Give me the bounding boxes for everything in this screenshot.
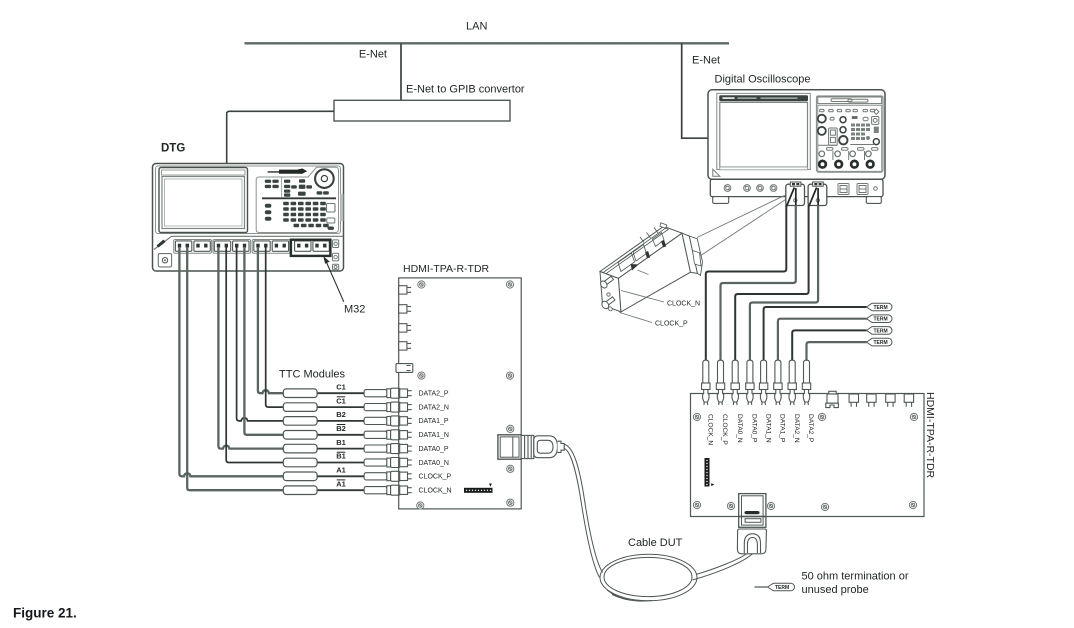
DTG chassis: [153, 164, 344, 272]
scope left foot: [713, 197, 729, 204]
wire DTG A1 to row7: [179, 247, 283, 476]
fixture right bracket: [682, 233, 698, 273]
svg-text:TTC Modules: TTC Modules: [279, 369, 346, 381]
svg-text:Figure 21.: Figure 21.: [13, 606, 77, 621]
TERM terminator 3: [867, 327, 892, 335]
panel row1 ovals: [820, 109, 875, 111]
svg-text:DATA2_N: DATA2_N: [419, 404, 449, 411]
wire DTG B2 to row3: [237, 247, 284, 421]
Cable DUT coiled loop: [600, 554, 697, 601]
scope bottom bay: [710, 179, 883, 196]
svg-text:TERM: TERM: [874, 328, 888, 334]
leader line scope probes to fixture: [697, 195, 785, 237]
panel diamond: [874, 109, 879, 114]
wires TTC modules to SMA sleeves: [316, 393, 365, 490]
TERM terminator 2: [867, 315, 892, 323]
scope control panel: [817, 96, 884, 172]
panel rocker: [829, 128, 838, 145]
left board pin1 arrow: [489, 484, 492, 487]
fixture end cap rim: [660, 223, 667, 228]
fixture left end face: [600, 272, 621, 312]
svg-text:E-Net: E-Net: [359, 49, 387, 61]
fixture front face: [618, 233, 690, 312]
right board probe labels: [707, 414, 815, 445]
wire probe7 to TERM3: [792, 330, 866, 362]
wire DTG C1 to row1: [258, 247, 284, 393]
right board screws: [693, 413, 700, 420]
left board HDMI receptacle: [498, 435, 521, 459]
svg-text:A1: A1: [336, 479, 346, 488]
svg-text:E-Net: E-Net: [692, 55, 720, 67]
svg-text:B2: B2: [336, 424, 346, 433]
DTG keypad: [283, 202, 329, 227]
left board edge connector footprints: [396, 286, 413, 373]
DTG output modules: [175, 241, 329, 251]
svg-text:TERM: TERM: [874, 305, 888, 311]
wire DTG B1bar to row6: [226, 247, 283, 463]
wire scope CH2+ to probe4: [750, 205, 818, 362]
right board wide connector footprint: [826, 391, 839, 407]
svg-text:B2: B2: [336, 410, 346, 419]
svg-text:CLOCK_P: CLOCK_P: [721, 414, 728, 445]
DTG screen: [162, 177, 245, 229]
scope banner: [719, 95, 808, 101]
svg-text:TERM: TERM: [775, 585, 789, 591]
TTC module capsules: [283, 389, 317, 495]
svg-text:B1: B1: [336, 438, 346, 447]
wire DTG C1bar to row2: [266, 247, 284, 407]
scope right foot: [866, 197, 881, 204]
svg-text:CLOCK_N: CLOCK_N: [707, 414, 714, 445]
left board SMA jack labels: [419, 391, 452, 495]
E-Net to GPIB convertor box: [334, 100, 510, 121]
svg-text:M32: M32: [344, 304, 365, 316]
vertical scale knobs: [819, 161, 873, 168]
svg-text:A1: A1: [336, 466, 346, 475]
left board wide connector footprint: [396, 364, 413, 373]
DTG output bay B: [213, 240, 251, 254]
svg-text:LAN: LAN: [466, 21, 487, 33]
wire scope CH2- to probe3: [735, 205, 808, 363]
DTG output posts: [178, 244, 327, 248]
svg-text:HDMI-TPA-R-TDR: HDMI-TPA-R-TDR: [403, 263, 490, 275]
panel button grid: [851, 124, 870, 141]
GPIB wire from convertor to DTG: [227, 111, 334, 163]
DTG right column connectors: [333, 240, 339, 248]
svg-text:Digital Oscilloscope: Digital Oscilloscope: [715, 74, 811, 86]
probe adapter CH2: [808, 182, 827, 206]
LAN bus wire: [245, 42, 730, 44]
wire DTG A1bar to row8: [187, 247, 283, 490]
wire probe6 to TERM2: [778, 319, 867, 362]
DTG pen icon: [157, 240, 166, 248]
svg-text:C1: C1: [336, 382, 346, 391]
DTG right edge bar: [340, 194, 343, 221]
right board pin1 arrow: [711, 483, 714, 486]
svg-text:CLOCK_N: CLOCK_N: [419, 488, 452, 495]
wire scope CH1- to probe1: [706, 205, 787, 363]
TERM terminator 1: [867, 303, 892, 311]
scope chassis: [708, 90, 885, 180]
svg-text:DATA2_P: DATA2_P: [419, 391, 449, 398]
DTG jog knob: [315, 169, 334, 188]
svg-text:C1: C1: [336, 396, 346, 405]
DTG data timing generator U1: [153, 164, 344, 272]
HDMI plug in right board: [737, 529, 766, 554]
scope screen bezel: [717, 93, 811, 169]
svg-text:DATA2_N: DATA2_N: [793, 414, 800, 443]
scope page corner icon: [713, 169, 720, 176]
svg-text:DATA1_P: DATA1_P: [419, 418, 449, 425]
DTG mode buttons: [265, 204, 272, 221]
DTG lower panel divider: [154, 236, 343, 249]
DTG power button: [158, 254, 171, 267]
svg-text:DTG: DTG: [161, 143, 185, 155]
probe leads inside adapters: [786, 188, 794, 208]
svg-text:TERM: TERM: [874, 340, 888, 346]
wire probe5 to TERM1: [764, 307, 867, 362]
right board pin header strip: [705, 458, 710, 487]
E-Net drop wire to GPIB convertor: [400, 43, 402, 100]
svg-text:DATA2_P: DATA2_P: [807, 414, 814, 443]
svg-text:CLOCK_N: CLOCK_N: [667, 301, 700, 308]
E-Net drop wire to oscilloscope: [682, 43, 708, 138]
DTG output bay A: [174, 240, 212, 254]
fixture inner leader tick: [638, 270, 649, 275]
SMA cable sleeves and plugs into left board: [364, 388, 412, 495]
panel lower ovals: [827, 148, 834, 151]
DTG enter button: [327, 204, 336, 213]
scope aux connectors: [838, 184, 877, 195]
svg-text:DATA1_N: DATA1_N: [419, 432, 449, 439]
DTG panel divider line: [262, 197, 336, 199]
TERM pointer dash: [755, 586, 769, 588]
channel select buttons: [819, 151, 825, 157]
svg-text:DATA0_P: DATA0_P: [419, 446, 449, 453]
right board edge connector footprints: [849, 394, 858, 407]
left board screws: [418, 281, 425, 288]
svg-text:DATA0_P: DATA0_P: [751, 414, 758, 443]
HDMI-TPA-R-TDR right fixture board: [691, 394, 925, 517]
wire probe8 to TERM4: [807, 342, 867, 362]
M32 leader arrow: [326, 262, 344, 302]
wire DTG B1 to row5: [218, 247, 283, 449]
leader line CLOCK_N: [621, 291, 664, 303]
leader line CLOCK_P: [620, 313, 653, 323]
svg-text:TERM: TERM: [874, 317, 888, 323]
svg-text:unused probe: unused probe: [802, 584, 869, 596]
HDMI plug in left board: [521, 435, 564, 458]
svg-text:DATA1_P: DATA1_P: [779, 414, 786, 443]
fixture SMA connector CLOCK_P: [600, 297, 615, 312]
TERM terminator 4: [867, 338, 892, 346]
differential probe fixture (isometric): [600, 223, 703, 312]
HDMI cable from left board: [564, 444, 603, 572]
DTG output bay C: [252, 240, 290, 254]
fixture arrow marking: [631, 264, 639, 271]
wire scope CH1+ to probe2: [721, 205, 796, 362]
DTG stylus: [268, 169, 308, 174]
svg-text:DATA0_N: DATA0_N: [736, 414, 743, 443]
left board pin header strip: [464, 488, 493, 493]
fixture DIP ticks: [645, 251, 650, 258]
DTG soft keys: [281, 178, 283, 197]
HDMI-TPA-R-TDR left fixture board: [399, 278, 522, 509]
M32 module highlight box: [291, 240, 331, 256]
TERM terminator capsule bottom: [768, 583, 795, 591]
fixture top face: [600, 226, 682, 278]
svg-text:E-Net to GPIB convertor: E-Net to GPIB convertor: [406, 84, 525, 96]
panel knob 1: [818, 115, 826, 123]
svg-text:DATA1_N: DATA1_N: [764, 414, 771, 443]
fixture top face markings: [618, 228, 664, 272]
panel knob 2: [818, 127, 826, 135]
fixture SMA connector CLOCK_N: [599, 276, 613, 296]
right board HDMI receptacle: [739, 494, 766, 528]
svg-text:DATA0_N: DATA0_N: [419, 460, 449, 467]
cable from loop to right HDMI plug: [696, 554, 747, 575]
DTG screen bezel: [159, 168, 248, 233]
svg-text:B1: B1: [336, 452, 346, 461]
oscilloscope U2: [708, 90, 885, 204]
svg-text:CLOCK_P: CLOCK_P: [419, 474, 452, 481]
svg-text:CLOCK_P: CLOCK_P: [655, 321, 688, 328]
svg-text:50 ohm termination or: 50 ohm termination or: [802, 571, 909, 583]
svg-text:Cable DUT: Cable DUT: [628, 537, 683, 549]
probe adapter CH1: [786, 182, 805, 206]
DTG control panel: [256, 167, 338, 232]
wire DTG B2bar to row4: [244, 247, 283, 435]
panel knob 3: [839, 136, 847, 144]
TTC row labels C1 C1bar B2 B2bar B1 B1bar A1 A1bar: [336, 382, 346, 488]
scope screen: [720, 102, 808, 167]
scope BNC inputs: [724, 185, 731, 192]
svg-text:HDMI-TPA-R-TDR: HDMI-TPA-R-TDR: [924, 392, 936, 479]
